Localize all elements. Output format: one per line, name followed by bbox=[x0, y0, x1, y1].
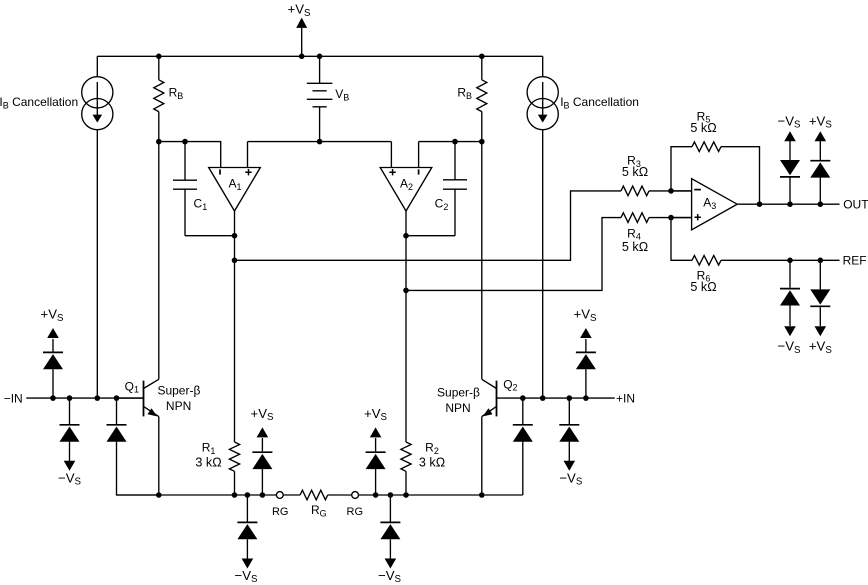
diode: rail to +VS (right) bbox=[364, 406, 388, 495]
junction: +IN / -VS diode bbox=[567, 395, 573, 401]
clamp diode: OUT to +VS bbox=[809, 113, 833, 204]
svg-text:RG: RG bbox=[347, 506, 364, 518]
svg-text:−IN: −IN bbox=[4, 391, 23, 405]
diode: bottom rail to -IN bbox=[107, 398, 159, 495]
terminal RG (right) bbox=[347, 492, 364, 518]
junction: C2 top bbox=[452, 139, 458, 145]
junction: top rail / RB right bbox=[479, 54, 485, 60]
resistor RB (left) bbox=[154, 56, 183, 141]
clamp diode: REF to -VS bbox=[778, 260, 802, 356]
wire: RB-right node to A2 inverting input bbox=[419, 142, 482, 168]
resistor R2 3 kOhm bbox=[401, 441, 445, 495]
resistor R3 5 kOhm bbox=[621, 154, 649, 196]
svg-text:OUT: OUT bbox=[843, 197, 868, 211]
wire: A2 output to R4 bbox=[406, 218, 621, 291]
junction: -IN / -VS diode bbox=[67, 395, 73, 401]
wire: A3 output to OUT bbox=[737, 203, 839, 205]
wire: RG left terminal to RG resistor bbox=[283, 494, 300, 496]
wire: node to A3 minus pin bbox=[671, 190, 692, 192]
junction: +IN / IB source bbox=[540, 395, 546, 401]
wire: node to A3 plus pin bbox=[671, 217, 692, 219]
resistor R4 5 kOhm bbox=[621, 213, 649, 254]
resistor R5 5 kOhm (feedback) bbox=[671, 109, 721, 190]
svg-text:+IN: +IN bbox=[616, 391, 635, 405]
junction: C1 top bbox=[182, 139, 188, 145]
junction: output / R5 feedback bbox=[757, 201, 763, 207]
battery VB bbox=[307, 56, 349, 141]
junction: VB bottom bbox=[317, 139, 323, 145]
svg-text:5 kΩ: 5 kΩ bbox=[622, 165, 648, 179]
op-amp A2 bbox=[380, 168, 432, 212]
junction: A3 inverting node bbox=[668, 188, 674, 194]
transistor Q1 Super-beta NPN bbox=[117, 379, 201, 416]
protection diode: -VS to -IN bbox=[58, 398, 82, 487]
junction: rail / Q2 emitter bbox=[479, 492, 485, 498]
resistor R1 3 kOhm bbox=[195, 441, 239, 495]
svg-text:REF: REF bbox=[843, 253, 867, 267]
junction: top rail / +VS arrow bbox=[299, 54, 305, 60]
svg-text:5 kΩ: 5 kΩ bbox=[622, 240, 648, 254]
svg-text:5 kΩ: 5 kΩ bbox=[690, 280, 716, 294]
wire: RB-left node to A1 inverting input bbox=[159, 142, 221, 168]
wire: R4 to A3 non-inverting input bbox=[649, 217, 692, 219]
protection diode: +IN to +VS bbox=[574, 307, 598, 398]
resistor RG (external gain resistor) bbox=[300, 490, 328, 518]
svg-text:RG: RG bbox=[272, 506, 289, 518]
terminal RG (left) bbox=[272, 492, 289, 518]
svg-text:IB Cancellation: IB Cancellation bbox=[560, 95, 639, 110]
resistor R6 5 kOhm bbox=[671, 218, 721, 294]
junction: output / -VS clamp bbox=[787, 201, 793, 207]
current source IB Cancellation (right) bbox=[527, 56, 639, 398]
svg-text:Super-β: Super-β bbox=[157, 384, 200, 398]
wire: Q2 emitter down to rail bbox=[481, 417, 483, 495]
wire: Q1 collector up to RB node bbox=[158, 142, 160, 380]
wire: top supply rail bbox=[97, 55, 542, 57]
svg-text:NPN: NPN bbox=[445, 401, 470, 415]
op-amp A3 bbox=[692, 179, 738, 230]
junction: A1 output / C1 bbox=[232, 233, 238, 239]
svg-text:3 kΩ: 3 kΩ bbox=[195, 456, 221, 470]
wire: bottom rail (left) bbox=[117, 494, 277, 496]
diode: -VS to rail (right) bbox=[378, 495, 402, 585]
svg-text:NPN: NPN bbox=[166, 399, 191, 413]
+VS supply arrow (top center) bbox=[288, 2, 312, 57]
junction: rail / +VS diode left bbox=[260, 492, 266, 498]
svg-text:5 kΩ: 5 kΩ bbox=[690, 121, 716, 135]
wire: R3 to A3 inverting input bbox=[649, 190, 692, 192]
junction: A2 output / R4 feed bbox=[403, 288, 409, 294]
junction: RB right / rail2 bbox=[479, 139, 485, 145]
wire: Q1 emitter down to rail bbox=[158, 417, 160, 495]
junction: +IN / rail diode bbox=[520, 395, 526, 401]
wire: VB to A1/A2 non-inverting inputs bbox=[248, 142, 392, 168]
svg-text:3 kΩ: 3 kΩ bbox=[419, 456, 445, 470]
op-amp A1 bbox=[209, 168, 261, 212]
junction: output / +VS clamp bbox=[818, 201, 824, 207]
wire: R6 to REF bbox=[721, 259, 840, 261]
protection diode: -IN to +VS bbox=[41, 307, 65, 398]
resistor RB (right) bbox=[457, 56, 486, 141]
junction: RB left / rail2 bbox=[156, 139, 162, 145]
junction: rail / Q1 emitter bbox=[156, 492, 162, 498]
diode: rail to +VS (left) bbox=[251, 406, 275, 495]
current source IB Cancellation (left) bbox=[0, 56, 113, 398]
wire: bottom rail (right) bbox=[359, 494, 523, 496]
junction: A2 output / C2 bbox=[403, 233, 409, 239]
junction: A3 non-inverting node bbox=[668, 215, 674, 221]
wire: -IN input line bbox=[26, 397, 143, 399]
junction: REF / +VS clamp bbox=[818, 258, 824, 264]
junction: -IN / rail diode bbox=[114, 395, 120, 401]
junction: -IN / +VS diode bbox=[50, 395, 56, 401]
junction: +IN / +VS diode bbox=[583, 395, 589, 401]
diode: -VS to rail (left) bbox=[235, 495, 259, 585]
junction: REF / -VS clamp bbox=[787, 258, 793, 264]
wire: inverting node up to R5 bbox=[671, 147, 692, 191]
clamp diode: REF to +VS bbox=[809, 260, 833, 356]
wire: RG resistor to RG right terminal bbox=[328, 494, 352, 496]
junction: top rail / VB battery bbox=[317, 54, 323, 60]
svg-text:Super-β: Super-β bbox=[437, 386, 480, 400]
svg-text:IB Cancellation: IB Cancellation bbox=[0, 95, 78, 110]
junction: rail / R1 bbox=[232, 492, 238, 498]
wire: A1 output down to R1 bbox=[234, 211, 236, 442]
wire: R5 to output node bbox=[721, 147, 760, 205]
capacitor C1 bbox=[173, 142, 235, 236]
wire: plus node down to R6 bbox=[671, 218, 692, 261]
wire: A2 output down to R2 bbox=[405, 211, 407, 442]
junction: rail / R2 bbox=[403, 492, 409, 498]
wire: +IN input line bbox=[523, 397, 615, 399]
junction: -IN / IB source bbox=[95, 395, 101, 401]
protection diode: -VS to +IN bbox=[559, 398, 583, 487]
junction: rail / -VS diode left bbox=[245, 492, 251, 498]
junction: A1 output / R3 feed bbox=[232, 258, 238, 264]
transistor Q2 Super-beta NPN bbox=[437, 377, 523, 416]
clamp diode: OUT to -VS bbox=[778, 113, 802, 204]
junction: rail / -VS diode right bbox=[388, 492, 394, 498]
wire: A1 output to R3 bbox=[235, 191, 622, 260]
capacitor C2 bbox=[406, 142, 467, 236]
junction: top rail / RB left bbox=[156, 54, 162, 60]
junction: rail / +VS diode right bbox=[373, 492, 379, 498]
wire: Q2 collector up to RB node bbox=[481, 142, 483, 380]
diode: bottom rail to +IN bbox=[513, 398, 533, 495]
